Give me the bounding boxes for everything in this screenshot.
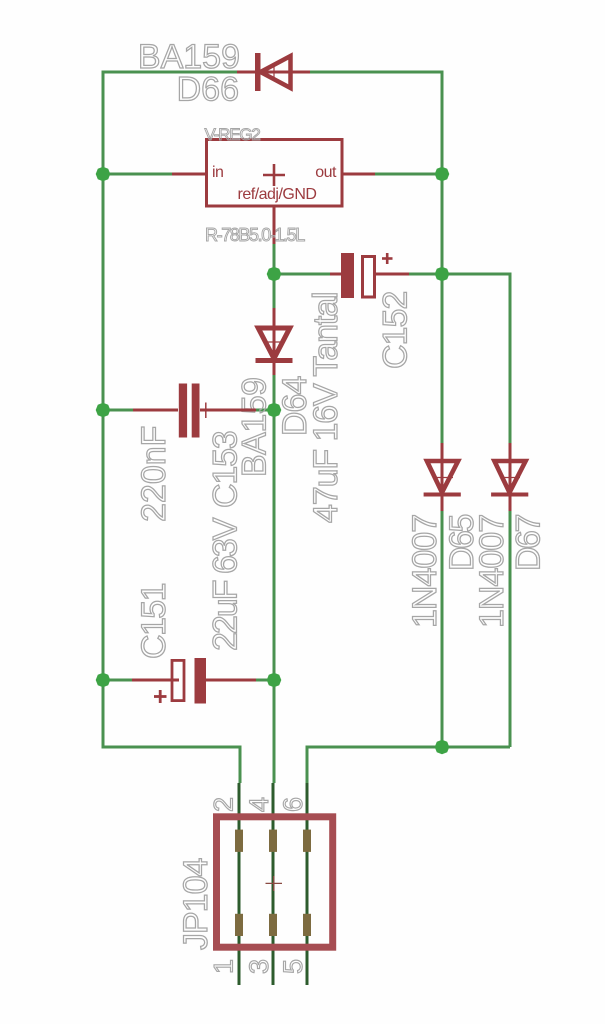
svg-text:1: 1 [209, 959, 239, 974]
wire: C152 right to right vertical [409, 273, 442, 276]
junction at V-REG2 in (103,174) [96, 167, 111, 182]
svg-text:1N4007: 1N4007 [406, 515, 444, 628]
wire: y274 over to D67 column and down [442, 274, 510, 443]
svg-text:4: 4 [244, 797, 274, 812]
JP104 contact pads top row [235, 830, 243, 852]
wire: D67 bottom vertical [509, 511, 512, 747]
connector JP104 pin 4 lead [272, 783, 275, 985]
junction C151 right (274,680) [267, 673, 282, 688]
svg-text:22uF 63V: 22uF 63V [207, 517, 245, 651]
wire: C153 left [103, 409, 133, 412]
wire: top net left segment [103, 72, 237, 747]
wire: V-REG2 input net [103, 173, 172, 176]
svg-text:ref/adj/GND: ref/adj/GND [238, 186, 317, 203]
svg-text:220nF: 220nF [135, 426, 173, 522]
junction at V-REG2 out (442,174) [435, 167, 450, 182]
junction bottom right (442,747) [435, 740, 450, 755]
svg-text:C152: C152 [377, 292, 415, 369]
wire: middle vertical x=274 from C153 row to C151 row [273, 410, 276, 680]
wire: D64 cathode down to node [273, 375, 276, 410]
capacitor C153 [133, 384, 256, 438]
wire: bottom right segment JP104 pin 6 to D65/D67 columns [307, 747, 510, 783]
diode D67 [491, 443, 528, 511]
junction C152 right (442,274) [435, 267, 450, 282]
svg-text:2: 2 [209, 797, 239, 812]
svg-text:3: 3 [244, 959, 274, 974]
wire: middle vertical down to JP104 pin 4 [273, 680, 276, 783]
wire: D65 bottom vertical [441, 511, 444, 747]
svg-text:JP104: JP104 [177, 859, 215, 950]
voltage regulator U: V-REG2 box [172, 140, 375, 245]
svg-text:1N4007: 1N4007 [473, 515, 511, 628]
svg-text:D66: D66 [177, 71, 239, 109]
svg-text:C153: C153 [207, 431, 245, 508]
connector JP104 pin 6 lead [306, 783, 309, 985]
diode D64 [256, 308, 293, 375]
svg-text:V-REG2: V-REG2 [205, 125, 261, 144]
junction GND node (274,274) [267, 267, 282, 282]
junction C153 right / D64 (274,410) [267, 403, 282, 418]
wire: C151 left [103, 679, 132, 682]
svg-text:C151: C151 [135, 583, 173, 659]
svg-text:in: in [212, 164, 223, 181]
wire: bottom left segment to JP104 pin 2 [103, 680, 240, 783]
wire: V-REG2 GND pin down to node [273, 244, 276, 274]
wire: C153 right [256, 409, 274, 412]
capacitor C152 (polarized) [330, 253, 409, 298]
JP104 contact pads bottom row [235, 914, 243, 936]
svg-text:out: out [315, 164, 337, 181]
diode D65 [424, 443, 461, 511]
svg-text:5: 5 [278, 959, 308, 974]
wire: D64 anode up to node [273, 274, 276, 308]
wire: C151 right [256, 679, 274, 682]
junction C153 left (103,410) [96, 403, 111, 418]
diode D66 [237, 53, 310, 91]
svg-text:R-78B5.0-1.5L: R-78B5.0-1.5L [205, 225, 305, 245]
wire: top net right segment into right vertical [310, 72, 442, 443]
wire: node to C152 left [274, 273, 330, 276]
capacitor C151 (polarized) [132, 658, 256, 704]
junction C151 left (103,680) [96, 673, 111, 688]
svg-text:47uF 16V Tantal: 47uF 16V Tantal [307, 293, 345, 524]
connector JP104 pin 2 lead [238, 783, 241, 985]
svg-text:D67: D67 [510, 515, 548, 571]
JP104 origin cross [266, 876, 283, 891]
connector JP104 body [217, 817, 333, 947]
svg-text:6: 6 [278, 797, 308, 812]
wire: V-REG2 output net [375, 173, 442, 176]
